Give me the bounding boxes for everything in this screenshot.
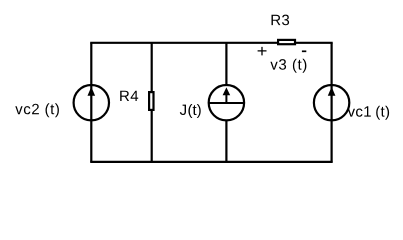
label v3(t) — [270, 59, 306, 73]
label vc1(t) — [348, 106, 389, 120]
wire left vertical — [90, 43, 92, 162]
label - polarity — [302, 50, 306, 52]
current source vc2 circle — [74, 85, 109, 120]
wire R4 branch vertical — [151, 43, 153, 162]
label + polarity — [258, 47, 267, 56]
current source j circle — [209, 85, 244, 120]
label R4 — [120, 91, 138, 101]
current source j arrow shaft — [225, 95, 227, 104]
current source j bar — [209, 102, 244, 104]
resistor R4 — [149, 92, 153, 110]
current source vc1 arrowhead — [328, 87, 336, 96]
label J(t) — [180, 104, 201, 118]
wire top — [90, 42, 333, 44]
label R3 — [272, 15, 290, 26]
wire right vertical — [331, 43, 333, 162]
label vc2(t) — [15, 103, 59, 117]
wire middle branch top segment — [225, 43, 227, 86]
current source vc1 circle — [314, 85, 349, 120]
current source j arrowhead — [223, 87, 231, 95]
resistor R3 — [278, 40, 295, 44]
current source vc2 arrowhead — [88, 87, 96, 96]
wire bottom — [90, 161, 333, 163]
wire middle branch bottom segment — [225, 120, 227, 162]
